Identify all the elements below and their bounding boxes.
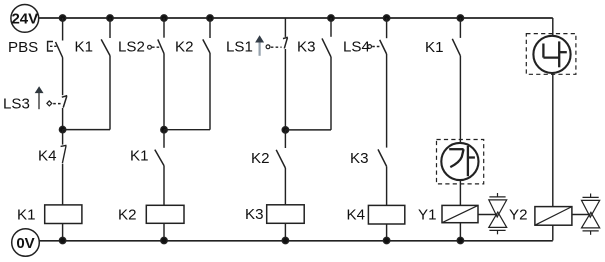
svg-text:Y2: Y2 [509,207,527,224]
relay coil K1 [17,205,82,224]
node: top rail junction column D [207,15,213,21]
svg-text:K4: K4 [347,207,365,224]
relay coil K2 [118,205,184,223]
svg-text:K2: K2 [175,39,193,56]
lamp indicator (Hangul GA) with selection box [437,140,484,184]
limit switch contact LS4 (roller) [343,18,387,56]
node: top rail junction column H [457,15,463,21]
svg-text:24V: 24V [11,11,38,28]
svg-text:K2: K2 [118,207,136,224]
relay contact K3 (parallel branch, column F) [297,18,331,57]
wire: coil K1 to bottom rail [62,224,64,241]
svg-text:K1: K1 [130,148,148,165]
svg-text:K1: K1 [17,207,35,224]
wire: K3 contact to coil K4 [386,166,388,205]
wire: solenoid Y1 to bottom rail [459,223,461,241]
svg-text:K4: K4 [38,148,56,165]
svg-text:K1: K1 [425,39,443,56]
relay contact K2 (middle row, column E) [251,130,285,168]
pushbutton contact PBS (NO) [8,18,63,58]
svg-text:LS2: LS2 [118,39,145,56]
svg-text:LS1: LS1 [226,39,253,56]
wire: top rail corner to lamp NA [552,18,554,36]
power rail 24V (top bus) [39,17,553,19]
relay contact K1 (parallel branch, column B) [75,18,111,56]
relay coil K4 [347,205,405,224]
wire: LS4 down to K3 contact [386,54,388,148]
limit switch contact LS1 (with actuated arrow) [226,18,288,56]
valve symbol V1 (at Y1) [489,193,507,234]
relay contact K4 (middle row, column A) [38,130,67,165]
relay contact K2 (parallel branch, column D) [175,18,210,56]
wire: coil K4 to bottom rail [386,224,388,241]
wire: solenoid Y2 to valve V2 [572,214,591,216]
wire: lamp to solenoid Y1 [459,180,461,205]
node: bottom rail junction column E [282,237,288,243]
svg-text:LS3: LS3 [3,96,30,113]
node A junction with dot [59,126,110,132]
supply source 24V [11,5,39,33]
wire: coil K3 to bottom rail [284,223,286,240]
wire: solenoid Y1 to valve V1 [478,214,498,216]
wire: lamp NA down to solenoid Y2 [552,73,554,207]
limit switch contact LS2 (roller) [118,18,164,56]
node: top rail junction column A [59,15,65,21]
node E junction with dot [282,127,331,133]
node: bottom rail junction column G [383,237,389,243]
svg-text:K3: K3 [297,39,315,56]
wire: solenoid Y2 to bottom rail [552,225,554,240]
node: top rail junction column G [383,15,389,21]
wire: LS1 to node E [284,49,286,130]
valve symbol V2 (at Y2) [582,194,600,235]
svg-text:LS4: LS4 [343,39,370,56]
node: top rail junction column B [107,15,113,21]
wire: column F down to join node E [330,57,332,130]
svg-text:K3: K3 [350,150,368,167]
svg-text:PBS: PBS [8,39,38,56]
limit switch contact LS3 (with actuated arrow) [3,58,67,130]
wire: LS2 to node C [163,54,165,130]
supply source 0V [12,229,40,257]
node: bottom rail junction column A [59,237,65,243]
node: bottom rail junction column C [161,237,167,243]
wire: column D down to join node C [209,53,211,130]
node: top rail junction column F [328,15,334,21]
relay coil K3 [245,205,304,224]
wire: K1 contact to coil K2 [163,166,165,206]
svg-text:0V: 0V [16,235,34,252]
solenoid coil Y2 [509,207,572,226]
svg-text:Y1: Y1 [418,207,436,224]
svg-text:K3: K3 [245,206,263,223]
relay contact K1 (lamp branch, column H) [425,18,460,56]
solenoid coil Y1 [418,205,478,223]
node: bottom rail junction column H [457,237,463,243]
wire: coil K2 to bottom rail [163,223,165,240]
relay contact K3 (middle row, column G) [350,149,387,167]
node: top rail junction column C [161,15,167,21]
wire: K4 contact to coil K1 [62,164,64,205]
svg-text:K1: K1 [75,39,93,56]
lamp indicator (Hangul NA) with selection box [526,34,576,75]
wire: column B down to join node A [109,56,111,130]
relay contact K1 (middle row, column C) [130,130,164,166]
wire: K2 contact to coil K3 [284,168,286,205]
wire: K1 contact down to lamp [459,56,461,143]
node C junction with dot [161,127,210,133]
svg-text:K2: K2 [251,150,269,167]
power rail 0V (bottom bus) [39,240,553,242]
